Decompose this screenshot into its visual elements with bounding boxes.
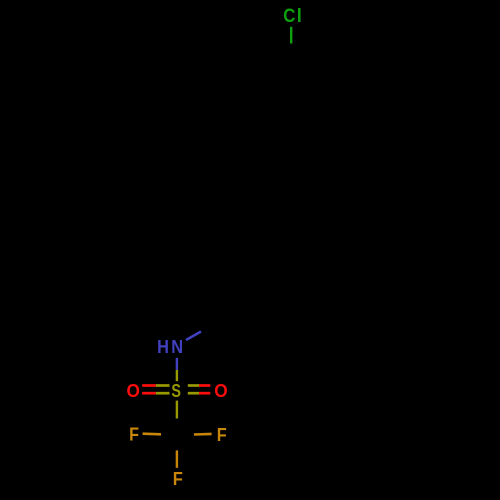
bond Cl-C1 (green half near Cl) bbox=[290, 27, 292, 44]
double bond S=O right, upper line: red half near O bbox=[199, 384, 210, 387]
svg-text:O: O bbox=[214, 381, 227, 401]
benzene ring (black, invisible on black bg) bbox=[253, 61, 329, 149]
double bond S=O right, lower line: red half near O bbox=[199, 392, 210, 395]
svg-text:l: l bbox=[297, 6, 302, 27]
chain bond C10-C11 bbox=[214, 281, 215, 326]
svg-text:F: F bbox=[173, 469, 183, 489]
double bond S=O left, lower line: red half near O bbox=[142, 392, 156, 395]
ring bond C6-C1 bbox=[253, 61, 291, 83]
double bond S=O right, upper line: olive half near S bbox=[188, 384, 199, 387]
bond N-S (blue half near N) bbox=[176, 358, 178, 370]
bond S-C12 (olive half near S) bbox=[176, 401, 178, 419]
ring bond C5-C6 bbox=[252, 83, 254, 127]
svg-text:O: O bbox=[126, 381, 139, 401]
alkyl chain (black, invisible on black bg) bbox=[214, 149, 291, 326]
double bond S=O left, upper line: red half near O bbox=[142, 384, 156, 387]
svg-text:F: F bbox=[217, 425, 227, 445]
double bond S=O left, upper line: olive half near S bbox=[156, 384, 170, 387]
bond C12-F bottom (carbon half, black) bbox=[176, 435, 178, 450]
bond C12-F left (orange half near F) bbox=[143, 432, 161, 435]
bond S-C12 (carbon half, black) bbox=[176, 419, 178, 436]
bond N-S (olive half near S) bbox=[176, 370, 178, 381]
bond C12-F left (carbon half, black) bbox=[161, 433, 177, 437]
svg-text:H: H bbox=[157, 337, 169, 357]
bond C12-F right (carbon half, black) bbox=[177, 433, 194, 436]
bond Cl-C1 (carbon half, black) bbox=[290, 44, 292, 61]
chain bond C8-C9 bbox=[215, 215, 253, 237]
ring bond C4-C5 bbox=[253, 127, 291, 149]
chain bond C9-C10 bbox=[214, 237, 216, 281]
bond C11-N (blue half near N) bbox=[186, 332, 201, 341]
ring bond C1-C2 bbox=[291, 61, 329, 83]
ring bond C2-C3 bbox=[328, 83, 330, 127]
bond C12-F right (orange half near F) bbox=[194, 433, 212, 436]
double bond S=O right, lower line: olive half near S bbox=[188, 392, 199, 395]
svg-text:F: F bbox=[129, 425, 139, 445]
chain bond C4-C7 bbox=[253, 149, 291, 171]
double bond S=O left, lower line: olive half near S bbox=[156, 392, 170, 395]
svg-text:S: S bbox=[171, 381, 181, 401]
bond C11-N (carbon half, black) bbox=[201, 325, 214, 331]
ring bond C3-C4 bbox=[291, 127, 329, 149]
svg-text:N: N bbox=[171, 337, 183, 357]
svg-text:C: C bbox=[283, 6, 295, 27]
bond C12-F bottom (orange half near F) bbox=[176, 450, 178, 467]
chain bond C7-C8 bbox=[252, 171, 254, 215]
